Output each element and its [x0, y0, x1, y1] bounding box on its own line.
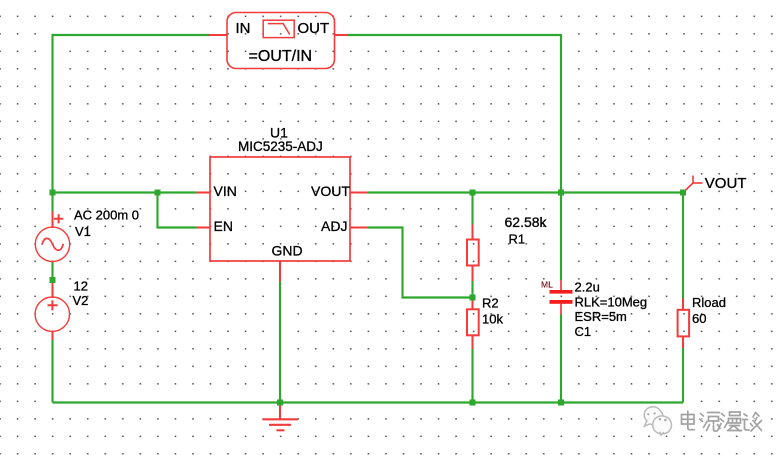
svg-text:62.58k: 62.58k [505, 214, 548, 230]
svg-text:VIN: VIN [214, 183, 237, 199]
svg-text:EN: EN [214, 218, 233, 234]
svg-text:AC 200m 0: AC 200m 0 [74, 208, 139, 223]
svg-text:IN: IN [236, 20, 251, 37]
svg-text:C1: C1 [575, 324, 592, 339]
svg-text:V2: V2 [73, 293, 89, 308]
svg-text:VOUT: VOUT [311, 183, 350, 199]
svg-text:R1: R1 [509, 232, 526, 247]
svg-text:GND: GND [272, 243, 303, 259]
svg-text:OUT: OUT [298, 20, 330, 37]
svg-text:ESR=5m: ESR=5m [575, 309, 627, 324]
svg-text:R2: R2 [482, 296, 499, 311]
svg-text:MIC5235-ADJ: MIC5235-ADJ [238, 139, 323, 154]
svg-text:2.2u: 2.2u [575, 279, 600, 294]
svg-text:12: 12 [74, 279, 88, 294]
svg-text:ML: ML [541, 280, 553, 290]
svg-text:=OUT/IN: =OUT/IN [249, 48, 313, 65]
svg-text:VOUT: VOUT [705, 175, 747, 192]
svg-text:Rload: Rload [692, 295, 726, 310]
svg-text:V1: V1 [75, 224, 91, 239]
svg-text:60: 60 [692, 311, 706, 326]
svg-text:ADJ: ADJ [321, 218, 347, 234]
svg-text:10k: 10k [482, 312, 503, 327]
svg-text:RLK=10Meg: RLK=10Meg [575, 295, 648, 310]
